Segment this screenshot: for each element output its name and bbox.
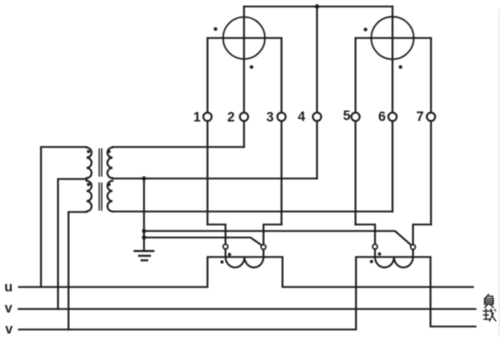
svg-text:u: u — [4, 280, 12, 295]
svg-text:1: 1 — [193, 110, 201, 125]
svg-text:v: v — [5, 322, 13, 337]
svg-text:v: v — [5, 301, 13, 316]
svg-text:7: 7 — [416, 109, 424, 124]
svg-text:6: 6 — [378, 109, 386, 124]
svg-text:3: 3 — [266, 110, 274, 125]
svg-text:4: 4 — [298, 109, 306, 124]
svg-text:5: 5 — [343, 108, 351, 123]
svg-text:2: 2 — [227, 110, 235, 125]
